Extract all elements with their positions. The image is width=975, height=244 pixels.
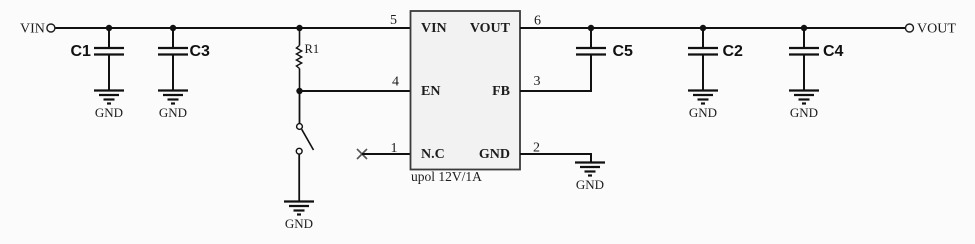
svg-text:4: 4 bbox=[392, 75, 399, 90]
node junction C5 bbox=[588, 25, 594, 31]
svg-text:R1: R1 bbox=[305, 42, 320, 56]
svg-text:FB: FB bbox=[492, 84, 510, 99]
svg-text:GND: GND bbox=[95, 105, 123, 120]
capacitor C4 bbox=[789, 28, 844, 90]
wire FB to C5 bottom bbox=[520, 90, 592, 92]
op-amp U1 regulator body bbox=[411, 11, 521, 170]
no-connect X on pin1 bbox=[357, 149, 367, 159]
ground GND of C1 bbox=[94, 91, 124, 121]
svg-text:C4: C4 bbox=[823, 43, 844, 60]
capacitor C5 bbox=[576, 28, 633, 91]
svg-text:6: 6 bbox=[534, 14, 541, 29]
ground GND of C4 bbox=[789, 91, 819, 121]
svg-text:GND: GND bbox=[285, 216, 313, 231]
svg-text:1: 1 bbox=[391, 141, 398, 156]
capacitor C2 bbox=[688, 28, 743, 90]
node VIN terminal bbox=[20, 22, 55, 37]
node junction EN bbox=[296, 88, 302, 94]
switch S1 bbox=[296, 91, 313, 201]
svg-text:C2: C2 bbox=[723, 43, 744, 60]
node junction C1 bbox=[106, 25, 112, 31]
capacitor C3 bbox=[158, 28, 210, 90]
svg-text:5: 5 bbox=[390, 13, 397, 28]
svg-text:GND: GND bbox=[790, 105, 818, 120]
svg-text:upol 12V/1A: upol 12V/1A bbox=[411, 169, 482, 184]
svg-text:N.C: N.C bbox=[421, 147, 445, 162]
svg-text:GND: GND bbox=[576, 177, 604, 192]
wire EN to U1 pin4 bbox=[300, 90, 411, 92]
svg-text:GND: GND bbox=[159, 105, 187, 120]
node junction C2 bbox=[700, 25, 706, 31]
svg-text:C1: C1 bbox=[71, 43, 92, 60]
svg-text:VIN: VIN bbox=[421, 21, 447, 36]
node junction C4 bbox=[801, 25, 807, 31]
ground GND of U1 pin2 bbox=[575, 163, 605, 193]
resistor R1 bbox=[296, 28, 319, 91]
wire N.C to U1 pin1 bbox=[362, 153, 411, 155]
wire VOUT rail bbox=[520, 27, 905, 29]
ground GND of C3 bbox=[158, 91, 188, 121]
wire VIN rail to U1 pin5 bbox=[56, 27, 411, 29]
svg-text:GND: GND bbox=[689, 105, 717, 120]
svg-text:EN: EN bbox=[421, 84, 440, 99]
svg-text:VOUT: VOUT bbox=[470, 21, 511, 36]
ground GND of switch bbox=[284, 202, 314, 232]
node VOUT terminal bbox=[906, 22, 957, 37]
wire U1 pin2 to ground bbox=[520, 154, 591, 162]
svg-text:3: 3 bbox=[534, 74, 541, 89]
svg-text:VIN: VIN bbox=[20, 22, 45, 37]
svg-text:VOUT: VOUT bbox=[917, 22, 956, 37]
svg-text:C3: C3 bbox=[190, 43, 211, 60]
node junction C3 bbox=[170, 25, 176, 31]
svg-text:GND: GND bbox=[479, 147, 510, 162]
ground GND of C2 bbox=[688, 91, 718, 121]
node junction R1 bbox=[296, 25, 302, 31]
svg-text:C5: C5 bbox=[613, 43, 634, 60]
capacitor C1 bbox=[71, 28, 125, 90]
